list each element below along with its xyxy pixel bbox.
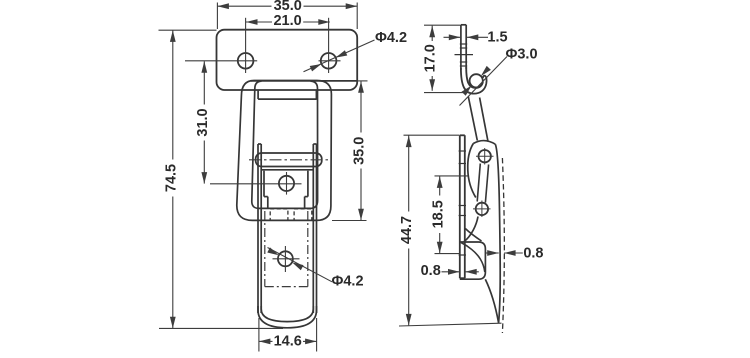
svg-text:74.5: 74.5 [164, 164, 180, 192]
svg-text:44.7: 44.7 [399, 216, 415, 244]
svg-text:17.0: 17.0 [423, 44, 439, 72]
svg-text:1.5: 1.5 [487, 29, 507, 45]
svg-text:Φ4.2: Φ4.2 [331, 274, 363, 290]
svg-text:Φ4.2: Φ4.2 [375, 30, 407, 46]
svg-text:0.8: 0.8 [421, 263, 441, 279]
svg-text:21.0: 21.0 [273, 13, 301, 29]
svg-text:31.0: 31.0 [195, 108, 211, 136]
svg-text:35.0: 35.0 [274, 0, 302, 14]
svg-text:14.6: 14.6 [274, 333, 302, 349]
svg-text:18.5: 18.5 [430, 200, 446, 228]
svg-text:0.8: 0.8 [523, 245, 543, 261]
svg-text:35.0: 35.0 [352, 137, 368, 165]
svg-text:Φ3.0: Φ3.0 [505, 47, 537, 63]
